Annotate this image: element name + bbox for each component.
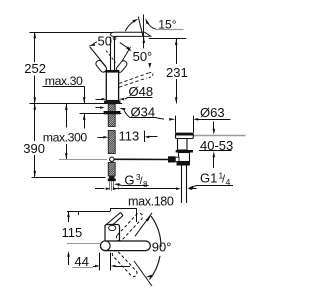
svg-text:max.180: max.180 [128,194,174,208]
svg-text:90°: 90° [152,239,172,254]
svg-text:115: 115 [62,225,83,240]
svg-text:Ø48: Ø48 [129,84,154,99]
svg-text:Ø63: Ø63 [200,105,225,120]
svg-text:50°: 50° [98,33,118,48]
svg-text:50°: 50° [133,49,153,64]
svg-text:231: 231 [166,65,188,80]
svg-text:252: 252 [24,61,46,76]
svg-text:8: 8 [143,180,148,189]
svg-text:390: 390 [23,141,45,156]
svg-text:44: 44 [75,254,89,269]
svg-text:113: 113 [119,128,140,143]
svg-text:max.300: max.300 [43,130,88,144]
svg-text:max.30: max.30 [45,74,83,88]
svg-text:G1: G1 [200,170,217,185]
